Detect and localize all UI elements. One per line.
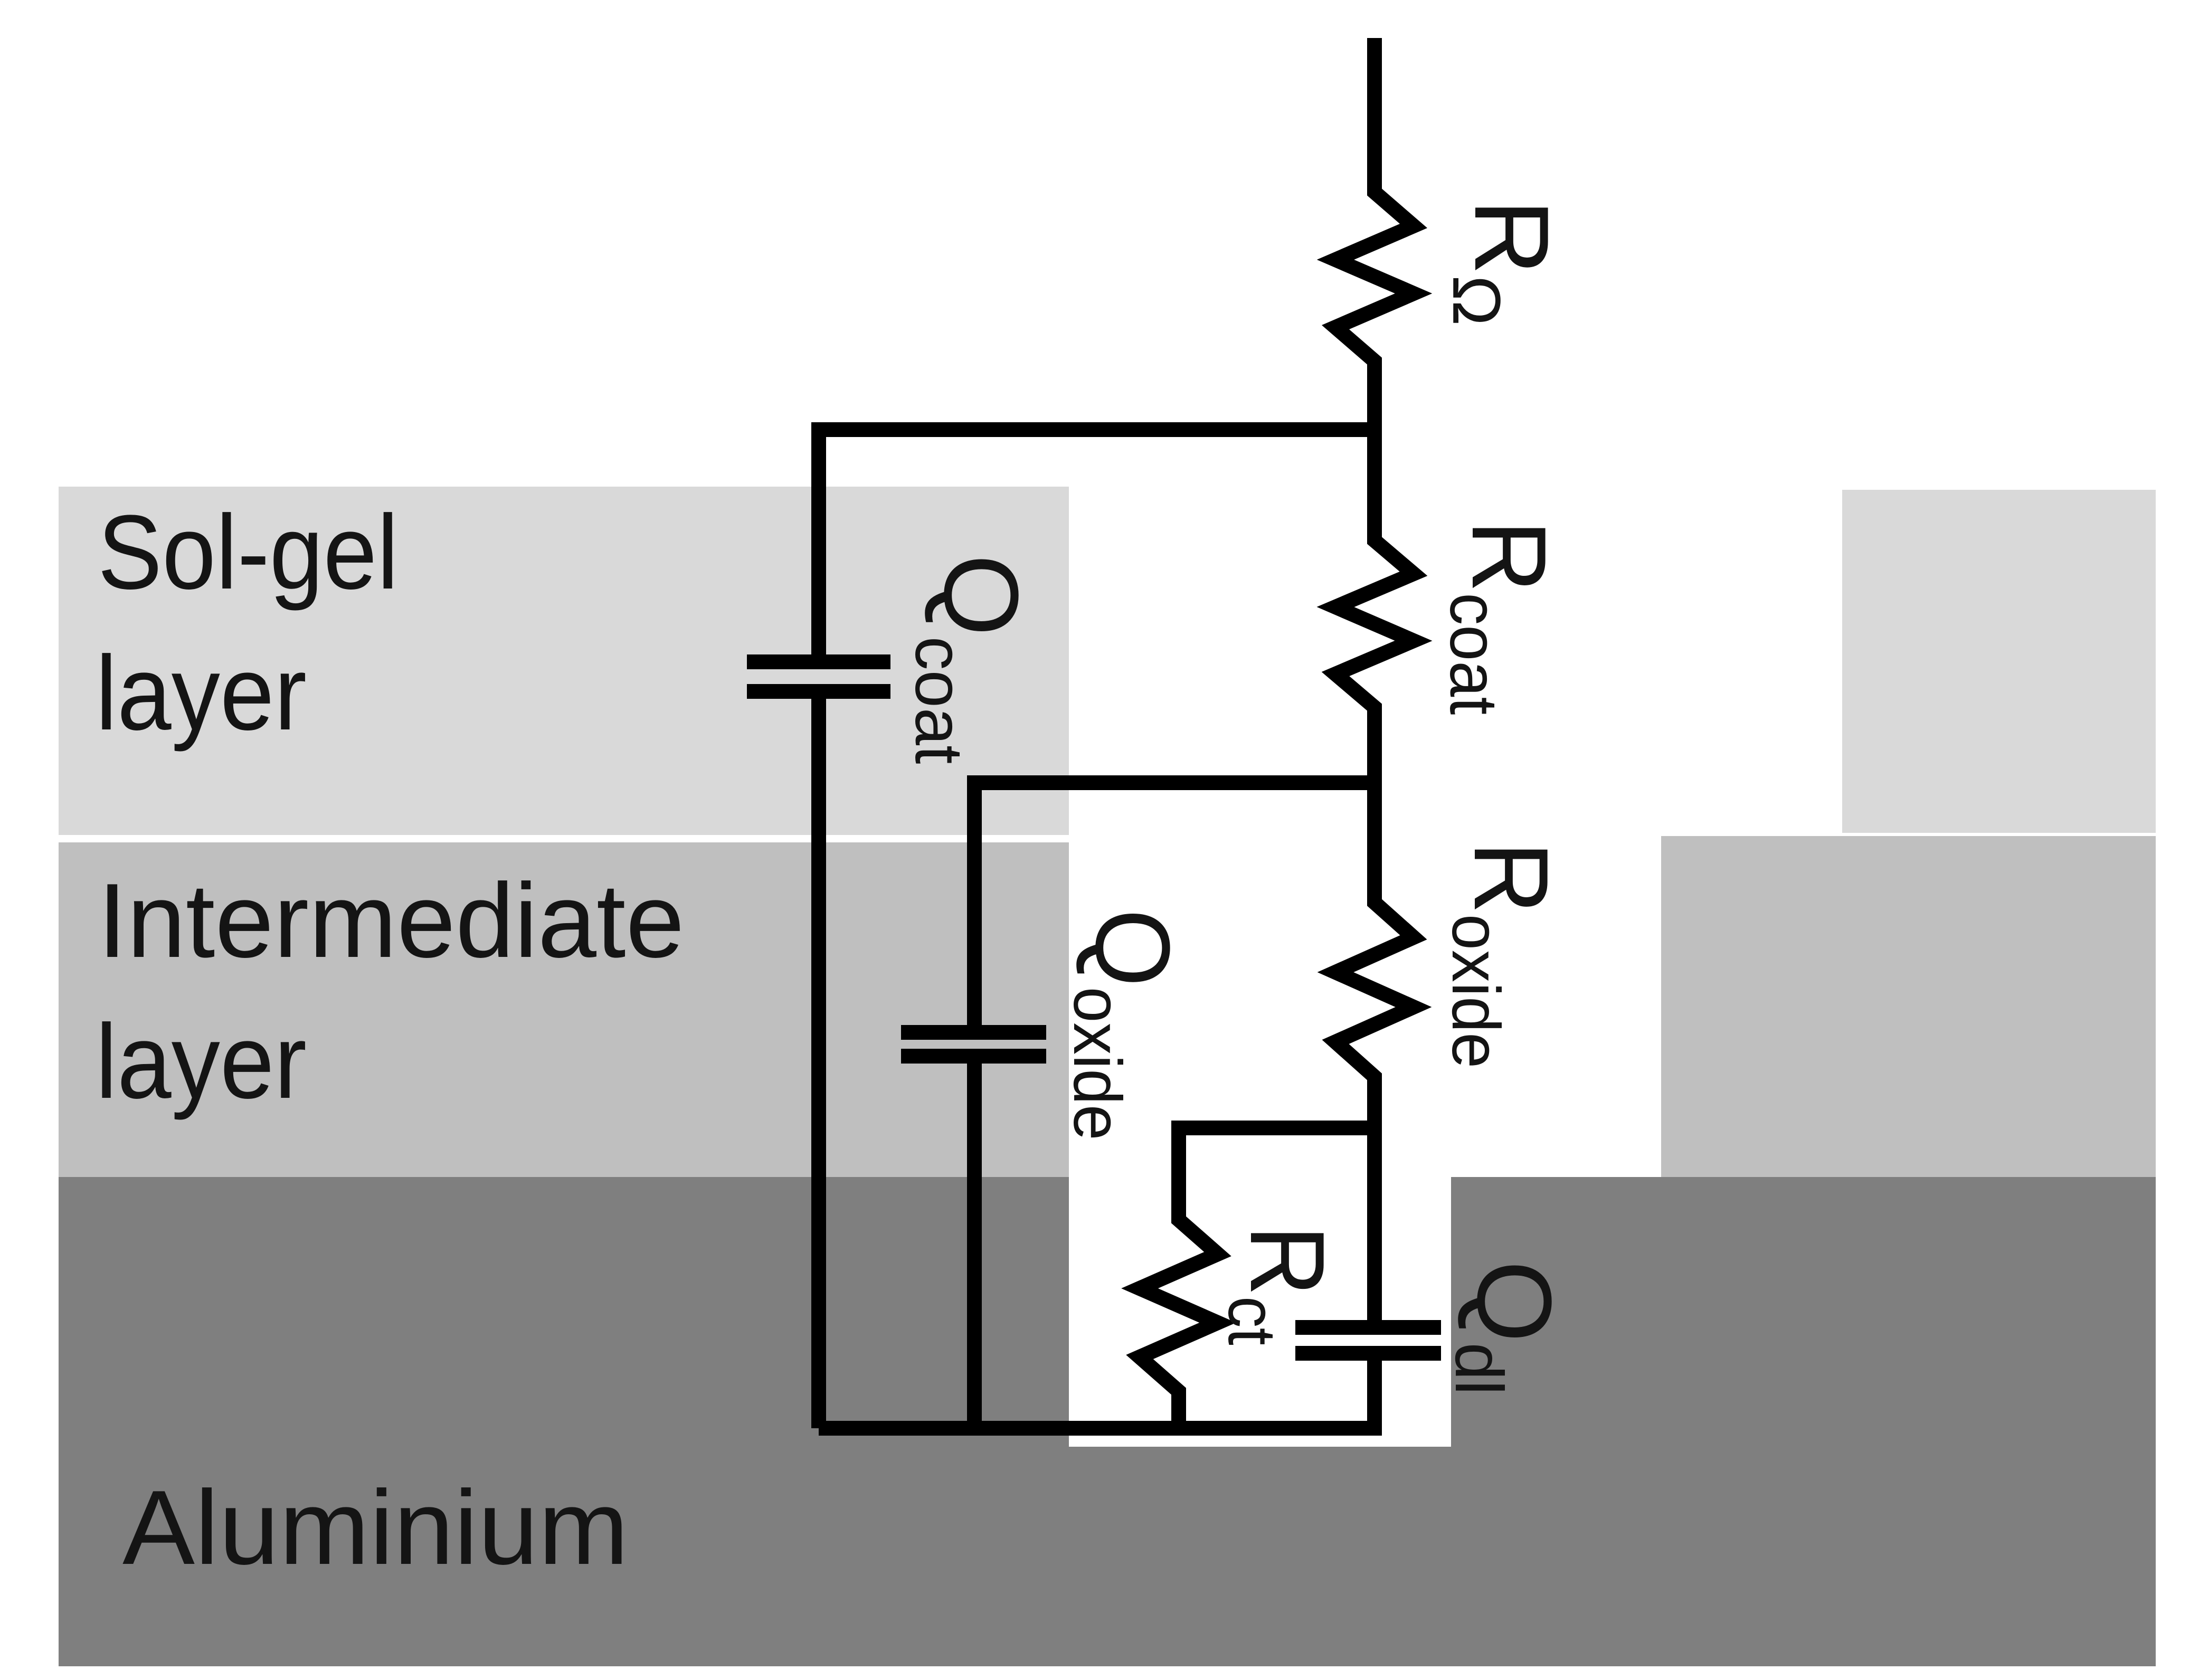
svg-text:Sol-gel: Sol-gel bbox=[98, 493, 399, 611]
svg-text:Intermediate: Intermediate bbox=[98, 862, 685, 980]
svg-text:layer: layer bbox=[96, 634, 307, 752]
svg-text:Aluminium: Aluminium bbox=[122, 1469, 629, 1587]
svg-text:layer: layer bbox=[96, 1003, 307, 1121]
